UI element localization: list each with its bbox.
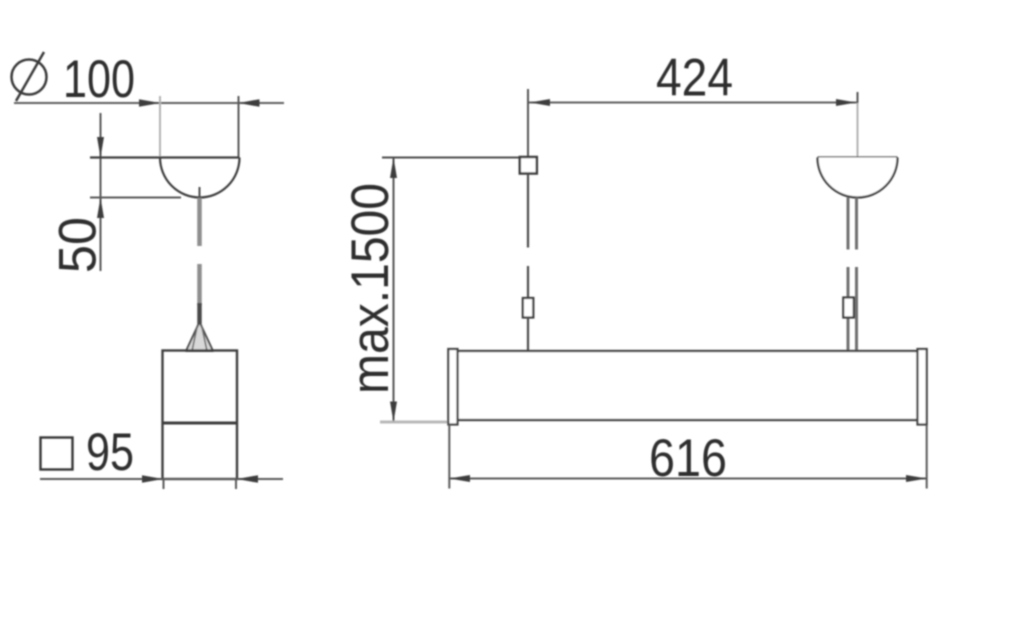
- dimension line 50 (vertical): [100, 113, 102, 271]
- left cable upper segment: [527, 174, 529, 248]
- luminaire body (side view): [458, 351, 918, 420]
- extension overshoot left: [163, 479, 165, 489]
- arrow top max1500: [390, 158, 397, 179]
- right cable ferrule: [843, 298, 854, 318]
- dimension line D100: [14, 102, 284, 104]
- left cable lower segment: [527, 318, 529, 352]
- cable upper segment: [197, 198, 202, 246]
- Y-split inner strands: [192, 325, 207, 351]
- extension line bottom of 50: [90, 197, 181, 199]
- ceiling mount square: [520, 157, 537, 174]
- right end cap: [918, 349, 927, 425]
- body divider line: [163, 422, 238, 425]
- svg-text:max.1500: max.1500: [341, 183, 400, 394]
- extension line right 424 upper: [857, 92, 859, 103]
- extension line left 616: [448, 425, 450, 489]
- svg-text:100: 100: [63, 50, 135, 109]
- arrow left D100: [139, 99, 160, 107]
- dimension line square95: [40, 478, 283, 480]
- extension line top max1500: [382, 157, 519, 159]
- extension overshoot right: [235, 479, 237, 489]
- double cable upper left strand: [847, 198, 850, 250]
- dimension line max1500 (vertical): [393, 158, 395, 423]
- arrow right square95: [237, 475, 258, 483]
- svg-text:50: 50: [49, 217, 108, 273]
- arrow bottom max1500: [390, 402, 397, 423]
- extension line right 616: [926, 425, 928, 489]
- left cable middle segment: [527, 266, 529, 299]
- svg-text:424: 424: [656, 49, 733, 108]
- arrow bottom 50: [97, 198, 104, 219]
- arrow left 424: [530, 99, 550, 106]
- dimension line 424: [528, 102, 858, 104]
- svg-text:95: 95: [86, 423, 134, 482]
- arrow top 50: [97, 137, 104, 158]
- extension line right 424 lower (light): [857, 103, 859, 157]
- dimension line 616: [449, 478, 926, 480]
- double cable lower left strand: [847, 267, 850, 351]
- double cable lower right strand: [855, 267, 858, 351]
- extension line left of D100 (light): [159, 96, 161, 157]
- svg-text:616: 616: [649, 429, 727, 488]
- double cable upper right strand: [855, 198, 858, 250]
- extension line right of D100: [238, 96, 240, 157]
- canopy dome (side view): [818, 158, 898, 198]
- cable lower segment: [197, 264, 202, 305]
- arrow right 616: [906, 475, 927, 482]
- arrow right 424: [836, 99, 856, 106]
- arrow left square95: [142, 475, 163, 483]
- extension line left 424: [527, 89, 529, 156]
- arrow right D100: [239, 99, 260, 107]
- Y-split suspension: [186, 322, 213, 351]
- cable dark end: [197, 303, 202, 324]
- square symbol: [41, 438, 73, 470]
- canopy dome top line (with extension to 50 dim): [90, 156, 240, 158]
- wire stub inside dome: [199, 187, 201, 199]
- arrow left 616: [449, 475, 470, 482]
- left cable ferrule: [523, 298, 534, 318]
- luminaire body (end view square): [163, 351, 238, 480]
- canopy dome right top line: [818, 156, 898, 158]
- left end cap: [448, 349, 457, 425]
- canopy dome (end view): [160, 158, 240, 198]
- diameter symbol: [12, 52, 47, 101]
- extension line bottom max1500 (light): [380, 421, 448, 424]
